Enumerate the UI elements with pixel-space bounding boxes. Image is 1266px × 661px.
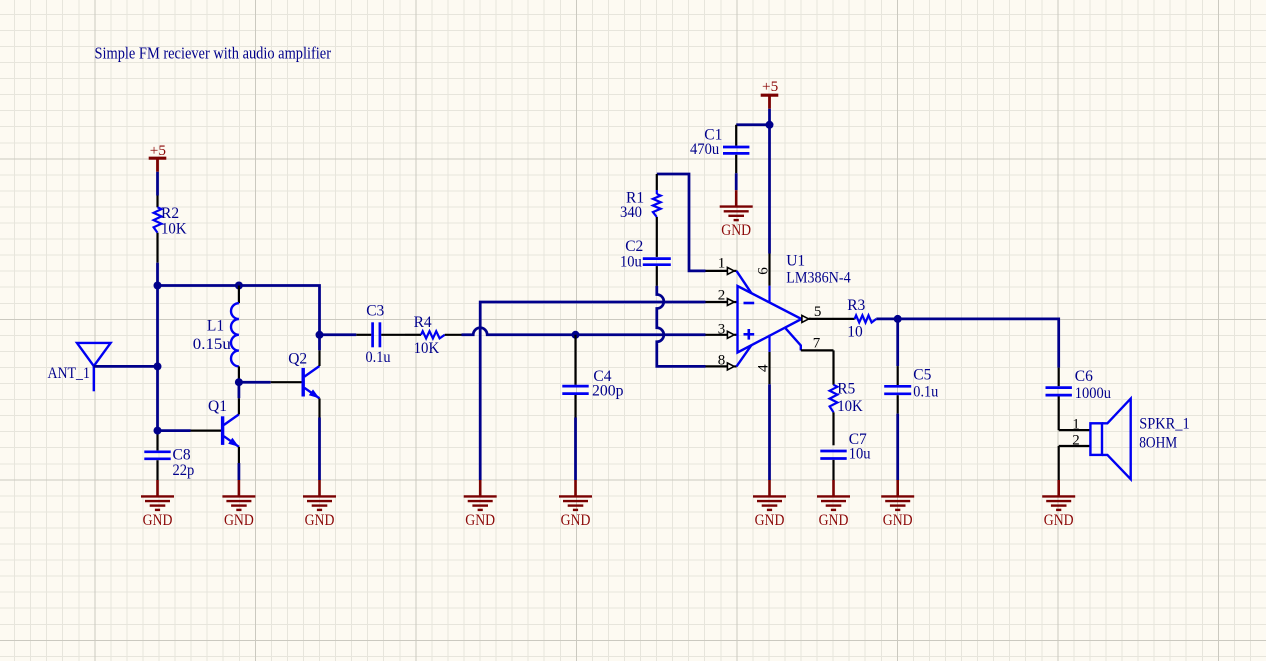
wire pin4 to gnd — [768, 384, 771, 480]
capacitor C5 — [897, 366, 899, 385]
U1 pin7 connector — [785, 328, 801, 351]
capacitor C4 — [574, 335, 576, 385]
svg-text:10u: 10u — [620, 253, 642, 270]
Q2 collector pin — [318, 350, 320, 366]
svg-text:R5: R5 — [837, 381, 855, 398]
U1 pin1 connector — [737, 271, 752, 293]
inductor L1 — [238, 286, 240, 304]
wire left vertical — [156, 286, 159, 431]
svg-text:10K: 10K — [414, 340, 440, 357]
svg-text:GND: GND — [305, 512, 335, 529]
pin 4 of U1 — [768, 352, 770, 384]
ground speaker — [1057, 480, 1060, 496]
capacitor C3 — [356, 334, 371, 336]
svg-text:0.1u: 0.1u — [913, 384, 938, 401]
Q2 emitter pin — [318, 398, 320, 417]
Q1 emitter pin — [238, 447, 240, 463]
capacitor C7 — [820, 450, 846, 453]
wire Q2 emitter — [318, 418, 321, 481]
U1 pin8 connector — [737, 345, 752, 366]
svg-text:4: 4 — [755, 364, 772, 372]
ground C4 — [574, 480, 577, 496]
svg-text:GND: GND — [224, 512, 254, 529]
svg-text:200p: 200p — [592, 382, 624, 399]
wire C1 top — [736, 123, 769, 126]
Q1 collector pin — [238, 398, 240, 414]
resistor R4 — [405, 334, 421, 336]
wire R3 to node — [876, 318, 897, 321]
svg-text:R3: R3 — [847, 297, 865, 314]
svg-text:1: 1 — [718, 256, 726, 272]
node rail-L1 — [235, 282, 243, 290]
ground pin4 — [768, 480, 771, 496]
wire R1 top — [657, 174, 706, 271]
wire R4 out with hop — [462, 328, 706, 335]
antenna ANT_1 — [77, 343, 111, 366]
svg-text:SPKR_1: SPKR_1 — [1139, 416, 1190, 433]
wire R2 to rail — [156, 263, 159, 286]
op-amp U1 body — [738, 286, 802, 353]
svg-text:6: 6 — [755, 267, 772, 275]
wire +5 to node — [768, 109, 771, 125]
capacitor C2 — [643, 257, 671, 260]
capacitor C6 — [1058, 368, 1060, 387]
svg-text:2: 2 — [1072, 433, 1080, 449]
node antenna — [154, 362, 162, 370]
svg-text:L1: L1 — [207, 317, 224, 334]
svg-text:Q1: Q1 — [208, 398, 227, 415]
transistor Q1 — [191, 430, 223, 432]
svg-text:0.15u: 0.15u — [193, 336, 231, 353]
svg-text:R4: R4 — [414, 314, 432, 331]
speaker SPKR_1 — [1090, 423, 1102, 455]
svg-text:7: 7 — [813, 335, 821, 351]
wire C2 to pin8 with hops — [657, 286, 706, 367]
wire antenna — [94, 365, 158, 368]
svg-text:C5: C5 — [913, 366, 931, 383]
svg-text:8OHM: 8OHM — [1139, 434, 1177, 451]
svg-text:GND: GND — [561, 512, 591, 529]
transistor Q2 — [271, 381, 304, 383]
wire C5 top — [896, 319, 899, 366]
pin 8 of U1 — [706, 365, 728, 367]
svg-text:+5: +5 — [762, 78, 778, 95]
node C8-Q1 base — [154, 427, 162, 435]
svg-text:GND: GND — [883, 512, 913, 529]
svg-text:GND: GND — [721, 222, 751, 239]
svg-text:C6: C6 — [1075, 368, 1093, 385]
ground pin2 net — [479, 480, 482, 496]
svg-text:3: 3 — [718, 322, 726, 338]
svg-text:10K: 10K — [837, 398, 863, 415]
svg-text:5: 5 — [814, 304, 822, 320]
svg-text:GND: GND — [465, 512, 495, 529]
resistor R2 — [156, 196, 158, 208]
wire Q2 collector — [318, 335, 321, 351]
wire Q2 base — [239, 381, 271, 384]
U1 minus sign — [744, 302, 755, 305]
svg-text:GND: GND — [755, 512, 785, 529]
wire speaker pin1 — [1059, 429, 1091, 431]
wire Q1 base — [158, 429, 191, 432]
wire pin7 down — [832, 350, 834, 384]
ground C7 — [832, 480, 835, 496]
wire +5 to R2 — [156, 172, 159, 196]
pin 7 of U1 — [801, 349, 834, 351]
svg-text:C8: C8 — [173, 446, 191, 463]
U1 plus sign — [744, 333, 755, 336]
svg-text:GND: GND — [1044, 512, 1074, 529]
svg-text:2: 2 — [718, 287, 726, 303]
U1 inner pin6 stub — [768, 286, 770, 303]
svg-text:GND: GND — [143, 512, 173, 529]
U1 inner pin4 stub — [768, 335, 770, 352]
svg-text:22p: 22p — [173, 462, 195, 479]
node L1 bottom — [235, 378, 243, 386]
svg-text:LM386N-4: LM386N-4 — [786, 270, 851, 287]
svg-text:R2: R2 — [161, 205, 179, 222]
svg-text:340: 340 — [620, 204, 642, 221]
wire top rail — [158, 286, 320, 335]
svg-text:8: 8 — [718, 352, 726, 368]
ground C1 — [735, 190, 738, 206]
wire Q1 collector — [238, 382, 241, 398]
pin 6 of U1 — [768, 254, 770, 286]
svg-text:Q2: Q2 — [288, 351, 307, 368]
node Q2 collector — [316, 331, 324, 339]
ground C5 — [896, 480, 899, 496]
node output — [894, 315, 902, 323]
power +5 (right) — [761, 94, 779, 97]
pin 5 of U1 — [802, 315, 809, 322]
wire C4 to gnd — [574, 418, 577, 481]
wire speaker pin2 — [1059, 445, 1091, 447]
svg-text:10K: 10K — [161, 220, 187, 237]
resistor R3 — [855, 315, 877, 322]
pin 1 of U1 — [706, 270, 728, 272]
wire C1 to gnd — [735, 173, 738, 190]
ground C8 — [156, 480, 159, 496]
node C4 junction — [572, 331, 580, 339]
pin 3 of U1 — [706, 334, 728, 336]
capacitor C1 — [735, 125, 737, 146]
svg-text:ANT_1: ANT_1 — [48, 365, 90, 382]
svg-text:1: 1 — [1072, 416, 1080, 432]
capacitor C8 — [156, 431, 158, 451]
ground Q2 — [318, 480, 321, 496]
svg-text:+5: +5 — [150, 142, 166, 159]
wire C3 left — [320, 333, 357, 336]
node rail-R2 — [154, 282, 162, 290]
pin 2 of U1 — [706, 301, 728, 303]
power +5 (left) — [149, 157, 167, 160]
wire Q1 emitter — [238, 463, 241, 480]
ground Q1 — [238, 480, 241, 496]
wire pin2 to gnd — [1058, 446, 1060, 480]
svg-text:10: 10 — [847, 323, 863, 340]
resistor R1 — [656, 174, 658, 190]
svg-text:U1: U1 — [786, 253, 805, 270]
wire +5 down to pin6 — [768, 125, 771, 254]
wire pin2 net — [480, 302, 705, 480]
wire C5 to gnd — [896, 414, 899, 480]
svg-text:Simple FM reciever with audio: Simple FM reciever with audio amplifier — [95, 44, 332, 63]
resistor R5 — [830, 385, 838, 413]
svg-text:470u: 470u — [690, 141, 719, 158]
wire output to C6 — [898, 319, 1059, 368]
svg-text:10u: 10u — [849, 445, 871, 462]
svg-text:1000u: 1000u — [1075, 385, 1111, 402]
svg-text:C3: C3 — [366, 302, 384, 319]
svg-text:GND: GND — [819, 512, 849, 529]
node C1 — [766, 121, 774, 129]
svg-text:0.1u: 0.1u — [366, 349, 391, 366]
